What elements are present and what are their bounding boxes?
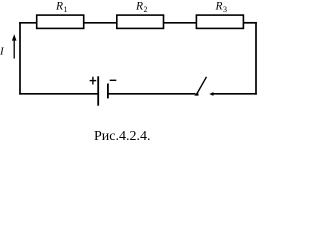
wire R1 to R2: [84, 22, 117, 24]
svg-text:Рис.4.2.4.: Рис.4.2.4.: [94, 129, 151, 144]
battery long plate (positive): [97, 76, 99, 105]
resistor R3: [196, 15, 243, 28]
wire left vertical: [19, 22, 21, 95]
svg-text:I: I: [0, 45, 5, 57]
resistor R1: [37, 15, 84, 28]
wire bottom right (switch to corner): [212, 93, 257, 95]
minus sign: [110, 79, 117, 81]
wire R3 to right corner: [243, 22, 256, 24]
svg-text:3: 3: [223, 5, 227, 14]
resistor R2: [117, 15, 164, 28]
svg-text:R: R: [135, 1, 143, 13]
current arrow head: [12, 34, 17, 40]
switch blade: [196, 77, 206, 95]
wire bottom left (corner to battery): [19, 93, 98, 95]
switch pivot contact: [194, 91, 198, 95]
svg-text:R: R: [55, 1, 63, 13]
wire top-left horizontal: [19, 22, 37, 24]
wire battery to switch: [108, 93, 196, 95]
wire R2 to R3: [164, 22, 197, 24]
svg-text:2: 2: [144, 5, 148, 14]
current arrow shaft: [13, 40, 15, 59]
battery short plate (negative): [107, 84, 109, 99]
switch arrow contact: [209, 92, 213, 96]
plus sign: [90, 80, 97, 82]
wire right vertical: [255, 22, 257, 95]
svg-text:1: 1: [64, 5, 68, 14]
svg-text:R: R: [215, 1, 223, 13]
